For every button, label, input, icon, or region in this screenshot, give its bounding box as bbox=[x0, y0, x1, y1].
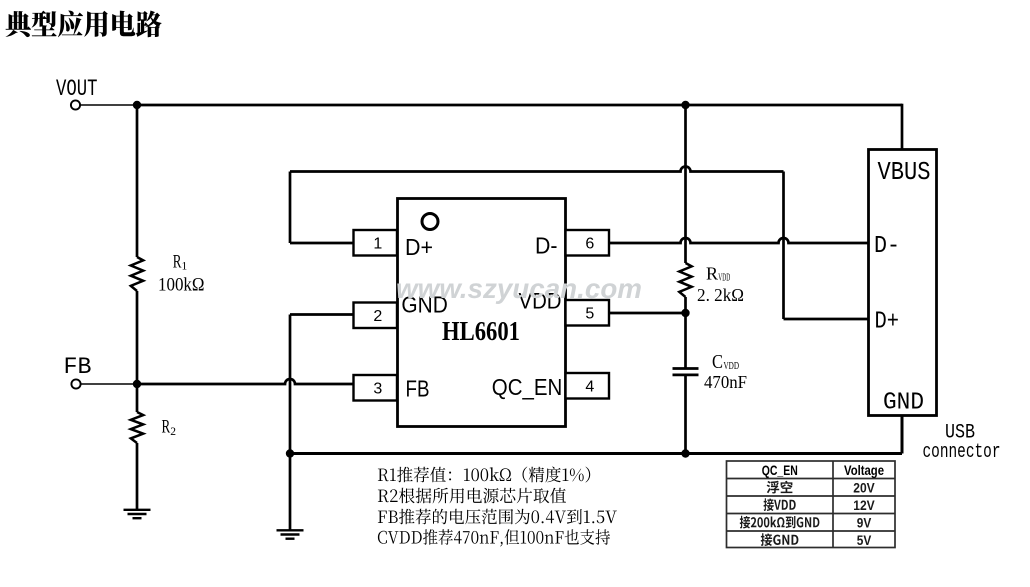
pin-1 indicator circle bbox=[422, 214, 438, 230]
wire CVDD bottom lead bbox=[684, 375, 687, 454]
svg-text:2: 2 bbox=[373, 308, 382, 325]
USB connector box bbox=[869, 150, 937, 416]
svg-text:9V: 9V bbox=[857, 514, 872, 530]
svg-text:5V: 5V bbox=[857, 532, 872, 548]
svg-text:VDD: VDD bbox=[724, 361, 740, 372]
wire D+ drop x=783.5 bbox=[782, 172, 785, 320]
junction FB-R1-R2 bbox=[133, 380, 141, 388]
title 典型应用电路 bbox=[6, 11, 162, 38]
svg-text:470nF: 470nF bbox=[704, 372, 747, 392]
junction CVDD bottom rail bbox=[681, 449, 689, 457]
svg-text:connector: connector bbox=[923, 441, 1001, 464]
svg-text:5: 5 bbox=[585, 306, 594, 323]
wire VBUS drop to connector bbox=[901, 104, 904, 152]
table row 9V CJK cell bbox=[740, 516, 820, 529]
junction top-R1 bbox=[133, 101, 141, 109]
junction gnd riser with bottom rail bbox=[286, 449, 294, 457]
svg-text:D+: D+ bbox=[405, 234, 433, 260]
svg-text:C: C bbox=[712, 351, 723, 373]
svg-text:QC_EN: QC_EN bbox=[492, 374, 563, 400]
svg-text:FB: FB bbox=[406, 376, 430, 402]
pin 5 box bbox=[566, 300, 610, 326]
junction VDD node bbox=[681, 309, 689, 317]
pin 4 box bbox=[566, 373, 610, 399]
svg-text:VDD: VDD bbox=[718, 273, 730, 284]
pin 1 box bbox=[354, 230, 398, 256]
wire R2 top lead bbox=[136, 384, 139, 412]
svg-text:R: R bbox=[706, 263, 718, 283]
pin 2 box bbox=[354, 303, 398, 329]
svg-text:VOUT: VOUT bbox=[56, 76, 98, 102]
svg-text:2: 2 bbox=[170, 426, 176, 438]
terminal VOUT circle bbox=[71, 100, 80, 109]
table QC_EN voltage grid bbox=[727, 461, 896, 548]
wire R1 bottom lead bbox=[136, 291, 139, 384]
ground symbol main bbox=[277, 530, 304, 538]
note line 4 bbox=[378, 529, 610, 546]
svg-text:R: R bbox=[162, 417, 171, 438]
wire VOUT top rail bbox=[137, 104, 902, 107]
wire FB stub (thin) bbox=[81, 383, 137, 385]
svg-text:VBUS: VBUS bbox=[878, 158, 931, 187]
wire pin6 D- to USB (hops over RVDD and D+ lines) bbox=[609, 238, 869, 243]
resistor RVDD bbox=[679, 263, 691, 297]
capacitor CVDD plates bbox=[673, 369, 699, 375]
pin 3 box bbox=[354, 375, 398, 401]
wire pin1 to D+ riser bbox=[290, 242, 354, 245]
ground under R2 bbox=[124, 510, 151, 518]
wire D+ riser x=290 bbox=[289, 172, 292, 244]
svg-text:D-: D- bbox=[535, 233, 558, 259]
svg-text:3: 3 bbox=[373, 381, 382, 398]
svg-text:100kΩ: 100kΩ bbox=[158, 275, 205, 296]
svg-text:QC_EN: QC_EN bbox=[762, 462, 798, 478]
svg-text:1: 1 bbox=[373, 236, 382, 253]
svg-text:4: 4 bbox=[585, 379, 594, 396]
junction top-RVDD bbox=[681, 101, 689, 109]
wire bottom ground rail bbox=[290, 452, 902, 455]
wire USB GND to bottom rail bbox=[901, 416, 904, 454]
svg-text:20V: 20V bbox=[853, 479, 875, 495]
wire pin2 to gnd riser bbox=[290, 313, 354, 316]
table row 20V CJK cell bbox=[767, 481, 793, 494]
wire VOUT stub (thin) bbox=[80, 104, 137, 106]
svg-text:www.szyucan.com: www.szyucan.com bbox=[396, 273, 642, 304]
svg-text:1: 1 bbox=[182, 261, 188, 273]
table row 12V CJK cell bbox=[764, 498, 796, 511]
wire D+ top run (hop over RVDD line) bbox=[290, 167, 784, 172]
svg-text:D+: D+ bbox=[875, 309, 900, 336]
svg-text:D-: D- bbox=[874, 233, 900, 260]
wire RVDD bottom lead bbox=[684, 297, 687, 313]
svg-text:6: 6 bbox=[585, 236, 594, 253]
svg-text:HL6601: HL6601 bbox=[442, 316, 520, 346]
svg-text:FB: FB bbox=[64, 354, 92, 380]
svg-text:Voltage: Voltage bbox=[844, 462, 884, 478]
table row 5V CJK cell bbox=[761, 533, 799, 546]
wire RVDD top lead bbox=[684, 105, 687, 263]
note line 1 bbox=[378, 467, 590, 483]
wire D+ into USB connector bbox=[784, 318, 869, 321]
op-chip U1 HL6601 body bbox=[398, 199, 566, 427]
wire pin5 VDD to RVDD node bbox=[609, 312, 686, 315]
svg-text:12V: 12V bbox=[853, 497, 875, 513]
pin 6 box bbox=[566, 230, 610, 256]
svg-text:2. 2kΩ: 2. 2kΩ bbox=[697, 285, 744, 305]
wire FB to pin3 (hop over gnd line) bbox=[137, 379, 354, 384]
wire R1 top lead bbox=[136, 105, 139, 257]
terminal FB circle bbox=[71, 379, 80, 388]
wire CVDD top lead bbox=[684, 313, 687, 368]
wire R2 bottom lead bbox=[136, 443, 139, 509]
svg-text:R: R bbox=[173, 252, 182, 273]
resistor R2 bbox=[131, 412, 143, 443]
note line 3 bbox=[378, 509, 617, 525]
wire gnd riser x=290 bbox=[289, 315, 292, 531]
svg-text:GND: GND bbox=[883, 390, 924, 417]
note line 2 bbox=[378, 488, 566, 504]
resistor R1 bbox=[131, 257, 143, 291]
